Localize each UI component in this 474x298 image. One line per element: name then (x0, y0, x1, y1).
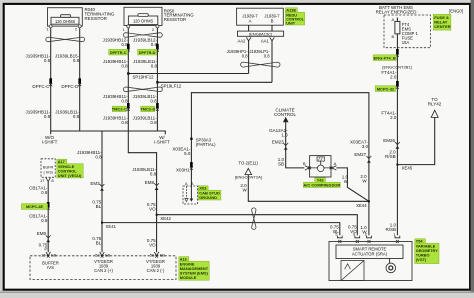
EMS module label A16 (179, 257, 189, 262)
svg-text:EM23: EM23 (272, 139, 284, 144)
node XE44 (368, 200, 370, 202)
connector tick left of DPFTR-D (156, 44, 159, 49)
svg-text:[ENG8A13C]: [ENG8A13C] (249, 31, 272, 36)
svg-text:RLY42: RLY42 (428, 101, 442, 106)
resistor R040 box (48, 8, 83, 26)
node XE41 (101, 222, 103, 224)
climate control arrow (283, 117, 289, 123)
twisted pair symbol below R040 (46, 37, 85, 42)
wire J1939LB11 to EMS pin 56 (128, 131, 156, 252)
svg-text:BUFR: BUFR (43, 166, 54, 170)
svg-text:ENG-FT4_B: ENG-FT4_B (374, 55, 396, 60)
svg-text:EM9: EM9 (37, 231, 47, 236)
ground arrow solid (190, 186, 192, 199)
svg-text:X03H1: X03H1 (176, 168, 190, 173)
svg-text:MODULE: MODULE (180, 276, 197, 280)
svg-text:0.8: 0.8 (44, 58, 51, 63)
svg-text:EB: EB (105, 252, 111, 257)
svg-text:I-SHIFT: I-SHIFT (154, 139, 170, 144)
svg-text:17: 17 (40, 178, 45, 183)
wire A/C pin A to XE44 (336, 168, 369, 201)
twisted pair symbol mid column 2 (123, 87, 162, 92)
svg-text:VO: VO (149, 243, 156, 248)
svg-text:XE45: XE45 (402, 165, 413, 170)
pin AA2 (246, 37, 251, 41)
option bus line (51, 131, 166, 134)
svg-text:ACTUATOR (SRA): ACTUATOR (SRA) (352, 252, 388, 257)
wire J1939HB11 to EMS pin 52 (101, 131, 103, 252)
connector X03H1 (190, 162, 193, 167)
svg-text:(PARTIAL): (PARTIAL) (196, 142, 216, 147)
connector bar ENG8A13C (238, 31, 284, 36)
wire J1939LP1 from AA1 (271, 41, 273, 82)
svg-text:CAN 2 (-): CAN 2 (-) (147, 268, 165, 273)
cab stud ground dashed box (183, 186, 198, 204)
svg-text:EM27: EM27 (354, 152, 366, 157)
twisted pair symbol AA wires (241, 62, 280, 67)
SRA motor (386, 263, 396, 273)
svg-text:SYSTEM (EMS): SYSTEM (EMS) (180, 271, 209, 276)
svg-text:0.8: 0.8 (73, 114, 80, 119)
svg-text:56: 56 (150, 252, 155, 257)
svg-text:MCPC-32: MCPC-32 (377, 86, 395, 91)
svg-text:UNIT: UNIT (286, 22, 296, 26)
VECU unit label A17 (57, 159, 67, 164)
svg-text:0.8: 0.8 (95, 154, 102, 159)
svg-text:0.8: 0.8 (121, 120, 128, 125)
svg-text:A: A (392, 17, 395, 22)
svg-text:1.0: 1.0 (281, 133, 288, 138)
svg-text:BL: BL (96, 204, 102, 209)
node XE42 (156, 214, 158, 216)
connector TMC2-D label (141, 106, 155, 111)
wire J1939HB12 from R050 pin 1 (127, 28, 129, 132)
splice SP19HF12 (127, 72, 129, 74)
svg-text:EM8: EM8 (145, 180, 155, 185)
wire J1939HP1 from AA2 (248, 41, 250, 74)
svg-text:R/SB: R/SB (385, 227, 396, 232)
svg-text:W: W (242, 188, 247, 193)
connector tick TMC2-D (156, 103, 159, 108)
resistor R050 box (124, 7, 162, 25)
J1939-7 box pin stubs (249, 25, 272, 31)
wire XE45 to RLY42 (397, 117, 434, 164)
wire XE41 line (102, 223, 340, 236)
wire XE42 line (157, 215, 358, 236)
pin AA1 (270, 37, 275, 41)
svg-text:A16: A16 (180, 257, 187, 261)
svg-text:0.8: 0.8 (150, 172, 157, 177)
svg-text:0.8: 0.8 (44, 114, 51, 119)
svg-text:A: A (249, 19, 252, 24)
svg-text:CENTER: CENTER (434, 24, 451, 29)
svg-text:XE42: XE42 (160, 216, 171, 221)
svg-text:SP19LF12: SP19LF12 (161, 84, 182, 89)
SRA motor stub (389, 259, 391, 264)
svg-text:0.8: 0.8 (73, 58, 80, 63)
svg-text:MCPC-4E: MCPC-4E (26, 205, 44, 209)
svg-text:(VGT): (VGT) (416, 257, 427, 262)
cab stud ground label X03 (198, 186, 208, 190)
svg-text:15: 15 (41, 252, 46, 257)
twisted pair symbol on XE41 XE42 lines (252, 208, 256, 229)
wire SP19LF12 to AA1 (157, 81, 272, 83)
svg-text:0.8: 0.8 (242, 54, 248, 59)
svg-text:52: 52 (95, 252, 100, 257)
connector MCPC-4E (47, 202, 50, 207)
svg-text:BL: BL (96, 240, 102, 245)
fuse and relay center label (433, 14, 451, 30)
svg-text:AA2: AA2 (237, 38, 246, 43)
svg-text:P: P (44, 247, 47, 252)
svg-text:SB: SB (278, 162, 284, 167)
svg-text:AA1: AA1 (261, 38, 270, 43)
svg-text:DPFC-D: DPFC-D (61, 84, 79, 89)
A/C compressor label Y43 (315, 178, 326, 182)
wire 2.0 W to XE44 (248, 175, 369, 202)
svg-text:0.8: 0.8 (41, 190, 48, 195)
svg-text:5.0: 5.0 (184, 151, 191, 156)
REDU control unit label A13E (285, 8, 297, 12)
fuse FT4 dashed box (384, 15, 431, 48)
svg-text:I-SHIFT: I-SHIFT (42, 139, 58, 144)
twisted pair symbol below R050 (123, 33, 162, 38)
op unit J1939-7 box (237, 8, 284, 25)
svg-text:120 OHMS: 120 OHMS (55, 19, 76, 24)
svg-text:0.8: 0.8 (121, 63, 128, 68)
connector tick left of DPFTR-C (127, 44, 130, 49)
svg-text:15A: 15A (402, 40, 410, 45)
svg-text:0.8: 0.8 (150, 120, 157, 125)
svg-text:A17: A17 (58, 160, 65, 164)
svg-text:CAN 2 (+): CAN 2 (+) (94, 268, 113, 273)
SRA header box (336, 245, 403, 259)
ground loop wire X03 (191, 93, 369, 236)
svg-text:[ENGCONT2B1]: [ENGCONT2B1] (382, 64, 411, 69)
connector ENG-FT4_B (396, 49, 399, 54)
svg-text:A: A (334, 161, 337, 166)
svg-text:( IV3): ( IV3) (43, 171, 53, 175)
svg-text:VEHICLE: VEHICLE (58, 165, 75, 169)
connector TMC2-C label (112, 106, 126, 111)
connector DPFC-C (49, 78, 52, 83)
VECU pin chevron (46, 178, 50, 182)
connector DPFTR-C label (109, 49, 128, 55)
svg-text:DPFTR-D: DPFTR-D (139, 51, 156, 55)
splice SP30A3 (190, 138, 192, 140)
wire GA12A1 to compressor (286, 122, 305, 168)
svg-text:IVS: IVS (47, 265, 54, 270)
VGT label Y54 (415, 239, 426, 243)
svg-text:W: W (362, 179, 367, 184)
A/C compressor box (310, 156, 331, 177)
wire J1939LB12 from R050 pin 2 (156, 28, 158, 132)
svg-text:CONTROL: CONTROL (274, 112, 296, 117)
svg-text:UNIT (VECU): UNIT (VECU) (58, 173, 82, 178)
EMS module dashed box (30, 256, 176, 280)
svg-text:RESISTOR: RESISTOR (85, 16, 107, 21)
wire J1939LB15 from R040 pin 2 (79, 28, 81, 131)
svg-text:DPFTR-C: DPFTR-C (110, 51, 127, 55)
right dark margin (471, 0, 474, 293)
svg-text:VO: VO (149, 207, 156, 212)
svg-text:A13E: A13E (286, 8, 296, 13)
svg-text:TMC2-D: TMC2-D (140, 107, 155, 112)
svg-text:0.8: 0.8 (150, 98, 157, 103)
svg-text:SP19HF12: SP19HF12 (133, 75, 155, 80)
svg-text:RELAY ENERGIZED: RELAY ENERGIZED (376, 9, 417, 14)
SRA outer box (329, 242, 412, 281)
svg-text:A/C COMPRESSOR: A/C COMPRESSOR (303, 183, 340, 188)
svg-text:0.8: 0.8 (264, 54, 270, 59)
svg-text:120 OHMS: 120 OHMS (133, 18, 154, 23)
svg-text:EM26: EM26 (383, 138, 395, 143)
ground arrow dashed (185, 187, 187, 199)
svg-text:XE41: XE41 (106, 224, 117, 229)
svg-text:RESISTOR: RESISTOR (164, 17, 186, 22)
svg-text:B: B (303, 161, 306, 166)
svg-text:R/SB: R/SB (385, 154, 396, 159)
connector DPFC-D (78, 78, 81, 83)
svg-text:2.0: 2.0 (390, 75, 397, 80)
svg-text:XE44: XE44 (356, 203, 367, 208)
svg-text:2.0: 2.0 (390, 115, 397, 120)
connector MCPC-32 (396, 81, 399, 86)
svg-text:B: B (271, 19, 274, 24)
connector tick TMC2-C (127, 103, 130, 108)
svg-text:0.8: 0.8 (121, 98, 128, 103)
svg-text:EB: EB (160, 252, 166, 257)
svg-text:TO-2(E11): TO-2(E11) (238, 160, 258, 165)
wire J1939HB11 from R040 pin 1 (50, 28, 52, 131)
connector DPFTR-D label (138, 49, 157, 55)
SRA electronics box (341, 261, 364, 281)
svg-text:[ENG0]: [ENG0] (449, 9, 463, 14)
svg-text:EB: EB (51, 252, 57, 257)
svg-text:3.0: 3.0 (362, 144, 369, 149)
wire through fuse (396, 18, 398, 236)
bottom margin (0, 292, 474, 293)
svg-text:0.8: 0.8 (41, 218, 48, 223)
svg-text:0.8: 0.8 (151, 63, 158, 68)
svg-text:B: B (392, 34, 395, 39)
svg-text:EM3: EM3 (90, 181, 100, 186)
wire SP19HF12 to AA2 (128, 73, 248, 75)
svg-text:TMC2-C: TMC2-C (112, 107, 127, 112)
VECU dashed box (41, 159, 55, 178)
svg-text:DPFC-C: DPFC-C (32, 84, 50, 89)
wire CB17A1 from VECU (47, 181, 49, 252)
splice SP19LF12 (156, 81, 158, 83)
node XE45 (396, 164, 398, 166)
svg-text:GROUND: GROUND (199, 195, 217, 200)
